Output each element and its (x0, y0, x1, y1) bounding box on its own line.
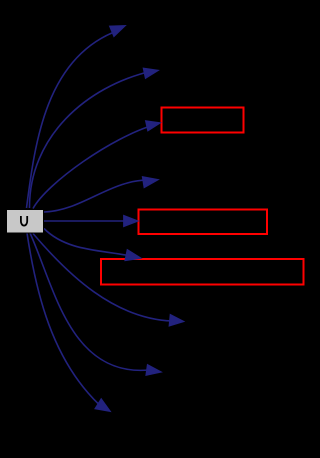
arrowhead edge5 (124, 215, 139, 226)
node U (7, 210, 44, 234)
wire edge7 U->n7 (33, 234, 172, 322)
U label glyph (21, 216, 27, 226)
arrowhead edge8 (146, 365, 162, 376)
red node box3 (101, 259, 304, 285)
red node box2 (139, 210, 268, 235)
arrowhead edge9 (95, 399, 111, 412)
arrowhead edge6 (125, 250, 141, 261)
wire edge3 U->n3 (33, 125, 155, 209)
arrowhead edge4 (142, 177, 158, 188)
wire edge6 U->n6 (44, 229, 130, 256)
wire edge4 U->n4 (44, 180, 152, 212)
arrowhead edge3 (146, 121, 161, 131)
wire edge5 U->n5 (44, 220, 127, 222)
arrowhead edge7 (169, 314, 184, 326)
arrowhead edge1 (110, 26, 126, 37)
wire edge2 U->n2 (29, 71, 152, 208)
arrowhead edge2 (143, 68, 158, 78)
wire edge8 U->n8 (30, 233, 149, 370)
red node box1 (162, 108, 244, 133)
wire edge9 U->n9 (27, 233, 99, 405)
wire edge1 U->n1 (27, 31, 119, 209)
